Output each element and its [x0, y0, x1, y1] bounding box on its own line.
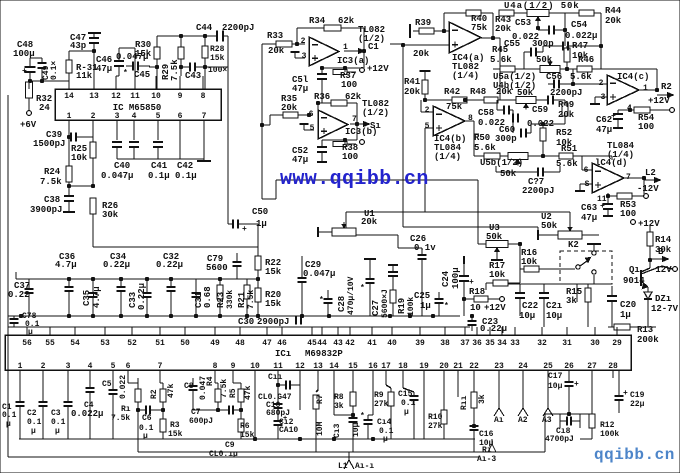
svg-text:56: 56: [22, 339, 32, 348]
svg-text:2200pJ: 2200pJ: [522, 186, 554, 196]
svg-text:R44: R44: [605, 6, 622, 16]
svg-text:C30: C30: [238, 317, 254, 327]
svg-text:C2: C2: [27, 409, 37, 418]
svg-text:C62: C62: [596, 115, 612, 125]
svg-text:50k: 50k: [500, 169, 517, 179]
svg-text:2: 2: [91, 112, 96, 121]
svg-text:R4: R4: [206, 376, 215, 386]
svg-text:Rıı: Rıı: [460, 395, 469, 410]
svg-text:1µ: 1µ: [420, 301, 431, 311]
svg-text:C44: C44: [196, 23, 213, 33]
svg-text:26: 26: [564, 362, 574, 371]
svg-text:2: 2: [599, 79, 604, 88]
svg-text:20k: 20k: [605, 16, 622, 26]
svg-text:47µ: 47µ: [292, 155, 308, 165]
svg-text:8: 8: [201, 92, 206, 101]
svg-text:R24: R24: [44, 167, 61, 177]
svg-text:44: 44: [317, 339, 327, 348]
svg-text:6: 6: [309, 110, 314, 119]
svg-text:+12V: +12V: [484, 303, 506, 313]
svg-text:0.022µ: 0.022µ: [71, 409, 103, 419]
svg-text:100: 100: [620, 209, 636, 219]
svg-text:R49: R49: [558, 100, 574, 110]
terminal +12V right: [631, 220, 636, 225]
svg-text:1500pJ: 1500pJ: [33, 139, 65, 149]
svg-text:15k: 15k: [265, 299, 282, 309]
svg-text:42: 42: [345, 339, 355, 348]
svg-text:18: 18: [398, 362, 408, 371]
svg-text:Qı: Qı: [629, 265, 640, 275]
svg-text:3: 3: [302, 52, 307, 61]
svg-text:M69832P: M69832P: [305, 349, 343, 359]
wire left rail: [7, 95, 9, 457]
svg-text:Cı4: Cı4: [377, 418, 392, 427]
svg-text:15k: 15k: [135, 49, 152, 59]
svg-text:200k: 200k: [637, 335, 659, 345]
svg-text:20: 20: [439, 362, 449, 371]
svg-text:12: 12: [111, 92, 121, 101]
svg-text:2: 2: [301, 37, 306, 46]
svg-text:20k: 20k: [495, 24, 512, 34]
svg-text:C2ı: C2ı: [546, 301, 563, 311]
svg-text:53: 53: [100, 339, 110, 348]
wire bus y316: [8, 315, 460, 317]
svg-text:µ: µ: [31, 427, 36, 436]
svg-text:37: 37: [460, 339, 470, 348]
svg-text:R6: R6: [240, 422, 250, 431]
svg-text:6: 6: [178, 112, 183, 121]
svg-text:R45: R45: [492, 45, 508, 55]
svg-text:43p: 43p: [70, 41, 86, 51]
op-amp IC3(a): [309, 37, 339, 66]
svg-text:1µ: 1µ: [620, 310, 631, 320]
svg-text:0.047µ: 0.047µ: [303, 269, 335, 279]
svg-text:+: +: [600, 202, 605, 211]
svg-text:0.022µ: 0.022µ: [565, 31, 597, 41]
svg-text:7: 7: [202, 112, 207, 121]
svg-text:2200pJ: 2200pJ: [550, 88, 582, 98]
svg-text:1: 1: [67, 112, 72, 121]
svg-text:-12V: -12V: [637, 184, 659, 194]
svg-text:C1: C1: [368, 42, 379, 52]
svg-text:12: 12: [295, 362, 305, 371]
wire bus y327: [8, 326, 470, 328]
wire cap ground rail: [117, 158, 204, 160]
svg-text:3k: 3k: [334, 402, 344, 411]
svg-text:46: 46: [277, 339, 287, 348]
svg-text:ICı: ICı: [275, 349, 292, 359]
svg-text:R5: R5: [229, 388, 238, 398]
wire pin21 stub: [457, 378, 459, 397]
svg-text:R28: R28: [210, 45, 225, 54]
capacitor C28a: [324, 298, 333, 300]
svg-text:4: 4: [132, 112, 137, 121]
svg-text:C5: C5: [102, 380, 112, 389]
svg-text:300p: 300p: [495, 134, 517, 144]
svg-text:R14: R14: [655, 235, 672, 245]
svg-text:Aı-ı: Aı-ı: [355, 462, 374, 471]
svg-text:47µ: 47µ: [96, 64, 112, 74]
svg-text:51: 51: [155, 339, 165, 348]
svg-text:C45: C45: [134, 70, 150, 80]
svg-text:47k: 47k: [244, 385, 253, 400]
svg-text:*: *: [360, 284, 365, 293]
svg-text:lC4(d): lC4(d): [595, 158, 627, 168]
wire pin 13 M65850: [93, 76, 95, 89]
svg-text:R52: R52: [556, 128, 572, 138]
svg-text:35: 35: [485, 339, 495, 348]
svg-text:5: 5: [310, 124, 315, 133]
svg-text:(1/4): (1/4): [434, 152, 461, 162]
svg-text:39: 39: [415, 339, 425, 348]
wire mid horizontal 247: [93, 246, 258, 248]
svg-text:A2: A2: [518, 416, 528, 425]
svg-text:L1: L1: [338, 462, 348, 471]
svg-text:47: 47: [262, 339, 272, 348]
svg-text:R12: R12: [600, 421, 615, 430]
svg-text:IC M65850: IC M65850: [113, 103, 162, 113]
svg-text:5: 5: [156, 112, 161, 121]
svg-text:470µ/10V: 470µ/10V: [347, 276, 356, 315]
wire pin 9 M65850: [179, 76, 181, 89]
svg-text:1: 1: [18, 362, 23, 371]
svg-text:3k: 3k: [478, 394, 487, 404]
svg-text:2: 2: [41, 362, 46, 371]
svg-text:5: 5: [111, 362, 116, 371]
svg-text:*: *: [444, 302, 449, 311]
svg-text:C38: C38: [44, 195, 60, 205]
svg-text:A3: A3: [542, 416, 552, 425]
terminal +6V: [27, 111, 32, 116]
wire IC4a plus: [403, 44, 449, 46]
svg-text:100: 100: [341, 80, 357, 90]
svg-text:0.1: 0.1: [2, 411, 17, 420]
svg-text:C59: C59: [532, 105, 548, 115]
svg-text:C9: C9: [225, 441, 235, 450]
svg-text:C54: C54: [571, 20, 588, 30]
wire IC4c out: [639, 89, 657, 91]
svg-text:10µ: 10µ: [519, 311, 535, 321]
svg-text:10µ: 10µ: [546, 311, 562, 321]
svg-text:qqibb.cn: qqibb.cn: [594, 446, 675, 464]
svg-text:+6V: +6V: [20, 120, 37, 130]
svg-text:100: 100: [342, 152, 358, 162]
svg-text:C3: C3: [51, 409, 61, 418]
wire IC4d inputs: [611, 156, 613, 160]
svg-text:13: 13: [313, 362, 323, 371]
wire IC4b inputs: [421, 111, 433, 113]
resistor R32: [26, 82, 33, 98]
wire pin 14 M65850: [68, 76, 70, 89]
svg-text:7.5k: 7.5k: [40, 177, 62, 187]
svg-text:19: 19: [419, 362, 429, 371]
svg-text:0.047µ: 0.047µ: [101, 171, 133, 181]
resistor R31: [66, 60, 72, 73]
svg-text:C25: C25: [414, 291, 430, 301]
svg-text:R48: R48: [470, 87, 486, 97]
svg-text:100: 100: [638, 122, 654, 132]
svg-text:75k: 75k: [471, 23, 488, 33]
wire pin16 long: [372, 378, 374, 415]
svg-text:36: 36: [472, 339, 482, 348]
svg-text:DZı: DZı: [655, 294, 672, 304]
svg-text:2900pJ: 2900pJ: [257, 317, 289, 327]
svg-text:23: 23: [494, 362, 504, 371]
svg-text:9: 9: [231, 362, 236, 371]
svg-text:C16: C16: [479, 430, 494, 439]
svg-text:C58: C58: [478, 108, 494, 118]
terminal +12V a: [360, 68, 365, 73]
ground C38: [63, 211, 75, 213]
svg-text:7.5k: 7.5k: [111, 414, 130, 423]
ground rail stub: [197, 160, 211, 162]
wire bottom bus y452: [138, 451, 545, 453]
svg-text:47k: 47k: [167, 383, 176, 398]
svg-text:10: 10: [470, 303, 481, 313]
svg-text:41: 41: [367, 339, 377, 348]
svg-text:5600: 5600: [206, 263, 228, 273]
svg-text:11: 11: [273, 362, 283, 371]
svg-text:43: 43: [333, 339, 343, 348]
svg-text:24: 24: [39, 103, 50, 113]
wire vertical 228: [227, 36, 229, 224]
svg-text:*: *: [319, 296, 324, 305]
svg-text:17: 17: [381, 362, 391, 371]
svg-text:R47: R47: [572, 41, 588, 51]
wire output down: [363, 51, 365, 68]
wire IC4a out: [481, 37, 500, 39]
svg-text:µ: µ: [6, 420, 11, 429]
wire feed vertical x403: [402, 44, 404, 227]
svg-text:28: 28: [608, 362, 618, 371]
svg-text:Aı-3: Aı-3: [477, 455, 496, 464]
svg-text:55: 55: [45, 339, 55, 348]
svg-text:47µ: 47µ: [596, 125, 612, 135]
svg-text:CL0.ıµ: CL0.ıµ: [209, 450, 238, 459]
svg-text:5600×J: 5600×J: [381, 289, 390, 318]
svg-text:C40: C40: [114, 161, 130, 171]
svg-text:0.22: 0.22: [8, 290, 30, 300]
svg-text:27: 27: [587, 362, 597, 371]
svg-text:µ: µ: [55, 427, 60, 436]
svg-text:22: 22: [469, 362, 479, 371]
svg-text:R41: R41: [404, 77, 421, 87]
svg-text:10M: 10M: [316, 421, 325, 436]
svg-text:47µ: 47µ: [292, 84, 308, 94]
svg-text:C27: C27: [371, 300, 381, 316]
svg-text:+: +: [22, 67, 27, 76]
svg-text:12-7V: 12-7V: [651, 304, 679, 314]
svg-text:15k: 15k: [210, 54, 225, 63]
svg-text:38: 38: [440, 339, 450, 348]
wire pin14 down: [333, 378, 335, 415]
ground IC4d pin5: [580, 183, 592, 185]
svg-text:µ: µ: [404, 408, 409, 417]
ground pin3: [295, 57, 305, 59]
wire pin 11 M65850: [134, 76, 136, 89]
svg-text:100k: 100k: [407, 297, 416, 316]
svg-text:0.1: 0.1: [51, 418, 66, 427]
svg-text:+12V: +12V: [648, 96, 670, 106]
svg-text:5.6k: 5.6k: [474, 143, 496, 153]
svg-text:15k: 15k: [265, 267, 282, 277]
svg-text:330k: 330k: [226, 290, 235, 309]
wire DZ1 down to R13: [647, 308, 649, 327]
svg-text:R19: R19: [397, 298, 407, 314]
svg-text:4: 4: [88, 362, 93, 371]
wire y212 channel: [346, 211, 570, 213]
svg-text:R2: R2: [150, 389, 159, 399]
wire pin10 long: [254, 378, 256, 439]
svg-text:54: 54: [70, 339, 80, 348]
wire IC4b out: [465, 120, 474, 122]
op-amp IC4(d): [592, 163, 624, 193]
wire pin 10 M65850: [155, 76, 157, 89]
svg-text:24: 24: [518, 362, 528, 371]
svg-text:8: 8: [213, 362, 218, 371]
svg-text:CA10: CA10: [279, 426, 298, 435]
svg-text:3900pJ: 3900pJ: [30, 205, 62, 215]
wire feed vertical x425 to IC4b plus: [425, 127, 433, 129]
wire IC1 bottom pin stubs: [19, 370, 21, 378]
svg-text:+: +: [283, 415, 287, 423]
svg-text:11: 11: [130, 92, 140, 101]
svg-text:49: 49: [210, 339, 220, 348]
wire K2 down: [593, 275, 595, 284]
svg-text:10k: 10k: [489, 270, 506, 280]
svg-text:C28: C28: [337, 296, 347, 312]
svg-text:R33: R33: [267, 31, 283, 41]
svg-text:R3: R3: [170, 421, 180, 430]
svg-text:14: 14: [64, 92, 74, 101]
ground pin5: [304, 129, 314, 131]
svg-text:11k: 11k: [76, 71, 93, 81]
svg-text:C19: C19: [630, 391, 645, 400]
svg-text:4700pJ: 4700pJ: [545, 435, 574, 444]
svg-text:3: 3: [115, 112, 120, 121]
svg-text:20k: 20k: [558, 110, 575, 120]
wire pin19 long: [423, 378, 425, 439]
IC M65850: [55, 89, 221, 120]
svg-text:K2: K2: [568, 240, 579, 250]
svg-text:2200pJ: 2200pJ: [222, 23, 254, 33]
op-amp IC4(c): [607, 75, 639, 105]
wire bottom bus y439: [19, 438, 475, 440]
svg-text:0.1µ: 0.1µ: [148, 171, 170, 181]
svg-text:+: +: [623, 389, 628, 398]
svg-text:25: 25: [543, 362, 553, 371]
svg-text:48: 48: [235, 339, 245, 348]
wire bottom bus y457: [8, 456, 480, 458]
svg-text:R46: R46: [578, 55, 594, 65]
svg-text:C42: C42: [177, 161, 193, 171]
svg-text:34: 34: [497, 339, 507, 348]
svg-text:10: 10: [250, 362, 260, 371]
svg-text:www.qqibb.cn: www.qqibb.cn: [280, 168, 429, 191]
svg-text:C50: C50: [252, 207, 268, 217]
svg-text:0.1×: 0.1×: [50, 61, 59, 80]
IC1 M69832P: [5, 335, 631, 370]
svg-text:B: B: [658, 247, 664, 257]
svg-text:20k: 20k: [496, 87, 513, 97]
wire R28 junction to x228: [205, 66, 228, 68]
svg-text:16: 16: [368, 362, 378, 371]
svg-text:R8: R8: [334, 393, 344, 402]
svg-text:R50: R50: [474, 133, 490, 143]
svg-text:Sı: Sı: [370, 121, 381, 131]
svg-text:C22: C22: [522, 301, 538, 311]
terminal +12V mid: [500, 297, 505, 302]
svg-text:40: 40: [387, 339, 397, 348]
op-amp IC3(b): [318, 110, 348, 139]
ground IC4c pin3: [595, 96, 607, 98]
svg-text:6: 6: [126, 362, 131, 371]
relay contacts: [592, 251, 596, 255]
wire S1 node down: [356, 124, 358, 140]
svg-text:+12V: +12V: [367, 64, 389, 74]
svg-text:+: +: [469, 278, 474, 287]
svg-text:15: 15: [348, 362, 358, 371]
svg-text:2: 2: [425, 106, 430, 115]
op-amp IC4(a): [449, 22, 481, 53]
svg-text:5.6k: 5.6k: [490, 55, 512, 65]
svg-text:20k: 20k: [404, 87, 421, 97]
wire R17 left: [496, 251, 498, 258]
svg-text:µ: µ: [143, 432, 148, 441]
svg-text:7: 7: [158, 362, 163, 371]
svg-text:20k: 20k: [413, 49, 430, 59]
svg-text:+12V: +12V: [638, 219, 660, 229]
svg-text:3: 3: [66, 362, 71, 371]
svg-text:32: 32: [537, 339, 547, 348]
svg-text:µ: µ: [383, 435, 388, 444]
svg-text:C20: C20: [620, 300, 636, 310]
svg-text:21: 21: [453, 362, 463, 371]
svg-text:15k: 15k: [168, 430, 183, 439]
wire staircase x403 bottom: [403, 226, 538, 228]
svg-text:20k: 20k: [361, 217, 378, 227]
svg-text:13: 13: [89, 92, 99, 101]
svg-text:10µ: 10µ: [548, 382, 563, 391]
wire pin 12 M65850: [115, 76, 117, 89]
svg-text:R39: R39: [415, 18, 431, 28]
wire IC1 top pin stubs: [26, 327, 28, 335]
svg-text:0.1: 0.1: [27, 418, 42, 427]
svg-text:50k: 50k: [541, 221, 558, 231]
wire mid-right horizontal 284: [508, 283, 612, 285]
svg-text:33: 33: [510, 339, 520, 348]
svg-text:10k: 10k: [71, 153, 88, 163]
svg-text:0.1µ: 0.1µ: [175, 171, 197, 181]
terminal IC3b: [360, 140, 365, 145]
wire top rail: [157, 35, 217, 37]
svg-text:1: 1: [643, 84, 648, 93]
relay switch top: [587, 243, 601, 245]
svg-text:Cıı: Cıı: [268, 373, 283, 382]
svg-text:C63: C63: [581, 203, 597, 213]
svg-text:4.7µ: 4.7µ: [55, 260, 77, 270]
svg-text:+: +: [611, 112, 616, 121]
svg-text:0.22µ: 0.22µ: [156, 260, 183, 270]
svg-text:(1/2): (1/2): [362, 108, 389, 118]
svg-text:IC4(c): IC4(c): [617, 72, 649, 82]
wire long horizontal y180: [276, 179, 478, 181]
electrolytic C12 sym: [274, 420, 283, 422]
svg-text:100µ: 100µ: [451, 267, 461, 289]
svg-text:0.22µ: 0.22µ: [480, 324, 507, 334]
svg-text:27k: 27k: [374, 400, 389, 409]
svg-text:+: +: [574, 380, 579, 389]
